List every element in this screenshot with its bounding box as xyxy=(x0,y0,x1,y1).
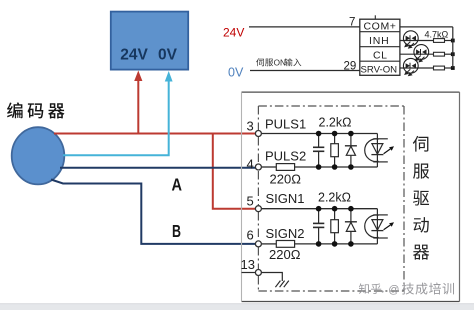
svg-text:@: @ xyxy=(388,284,399,296)
wire: CL row xyxy=(400,53,453,55)
value label 4.7kΩ xyxy=(425,30,449,40)
encoder (blue ellipse) xyxy=(12,127,65,184)
junction xyxy=(332,131,338,170)
svg-text:2.2kΩ: 2.2kΩ xyxy=(318,191,351,205)
signal label PULS1 xyxy=(265,117,306,132)
svg-text:SRV-ON: SRV-ON xyxy=(361,65,398,76)
power supply box (24V/0V source) xyxy=(111,12,188,70)
svg-text:SIGN1: SIGN1 xyxy=(266,191,305,206)
pin label SRV-ON xyxy=(361,65,398,76)
pin number 7 xyxy=(349,17,355,29)
wire: cyan 0V net from encoder up to supply box with arrowhead xyxy=(63,71,173,155)
wire: SRV-ON row xyxy=(400,67,453,69)
label B xyxy=(172,221,181,241)
wire: red branch up to supply box with arrowhead xyxy=(134,71,142,134)
resistor 2.2kΩ across PULS1/PULS2 xyxy=(331,134,339,168)
label 伺服驱动器 (servo driver), vertical xyxy=(413,136,429,260)
svg-text:4: 4 xyxy=(247,157,254,172)
wire: pin 29 lead to SRV-ON xyxy=(250,70,360,72)
resistor 4.7k (INH row) xyxy=(434,39,445,43)
terminal pin 6 (SIGN2) xyxy=(255,241,261,247)
svg-text:24V: 24V xyxy=(223,26,244,40)
capacitor across PULS1/PULS2 xyxy=(313,134,324,168)
svg-text:7: 7 xyxy=(349,17,355,29)
resistor 4.7k (SRV-ON row) xyxy=(434,66,445,70)
wire: navy signal A from encoder to pin 4 xyxy=(60,167,256,169)
label A xyxy=(172,174,183,194)
pin number 6 xyxy=(247,228,254,243)
svg-text:5: 5 xyxy=(247,194,254,209)
svg-text:220Ω: 220Ω xyxy=(270,172,302,187)
wire: navy signal B from encoder to pin 6 xyxy=(51,180,256,244)
value label 2.2kΩ (PULS) xyxy=(319,116,352,130)
terminal pin 13 with lead xyxy=(242,270,262,276)
pin number 5 xyxy=(247,194,254,209)
junction xyxy=(316,206,322,247)
pin label INH xyxy=(369,35,389,47)
value label 2.2kΩ (SIGN) xyxy=(318,191,351,205)
pin number 4 xyxy=(247,157,254,172)
wire: red 24V net horizontal from encoder to pin 3 xyxy=(54,133,256,135)
label 24V (red, external supply rail) xyxy=(223,26,244,40)
wire: red branch down to pin 5 (SIGN1) xyxy=(213,134,256,209)
svg-text:6: 6 xyxy=(247,228,254,243)
value label 220Ω (PULS2) xyxy=(270,172,302,187)
svg-text:CL: CL xyxy=(373,49,387,61)
svg-text:ON: ON xyxy=(274,59,286,68)
terminal pin 4 (PULS2) xyxy=(255,164,261,170)
optocoupler LED (PULS1/PULS2 input) xyxy=(365,134,394,168)
svg-text:0V: 0V xyxy=(228,66,244,80)
wire: right bus vertical (COM+ common) xyxy=(452,27,454,68)
resistor 4.7k (CL row) xyxy=(434,52,445,56)
pin number 13 xyxy=(241,257,255,272)
junction on bus (CL row) xyxy=(451,52,455,56)
diode across SIGN1/SIGN2 (cathode up) xyxy=(345,209,357,244)
signal label SIGN1 xyxy=(266,191,305,206)
pin label CL xyxy=(373,49,387,61)
svg-text:A: A xyxy=(172,174,183,194)
svg-text:0V: 0V xyxy=(158,47,178,64)
label encoder (编码器) xyxy=(7,102,64,118)
pin label COM+ xyxy=(364,21,397,33)
chassis ground symbol xyxy=(275,281,288,288)
svg-text:2.2kΩ: 2.2kΩ xyxy=(319,116,352,130)
svg-text:24V: 24V xyxy=(120,47,148,64)
capacitor across SIGN1/SIGN2 xyxy=(313,209,324,244)
wire: SIGN2 from pin 6 with series resistor xyxy=(261,243,377,245)
svg-text:29: 29 xyxy=(344,61,357,73)
dash-dot interface boundary of servo driver xyxy=(258,106,404,291)
optocoupler LED (CL input) xyxy=(414,45,429,63)
junction xyxy=(348,131,354,170)
junction xyxy=(348,206,354,247)
junction on bus (INH row) xyxy=(451,39,455,43)
wire: pin 7 lead to COM+ xyxy=(249,26,360,28)
resistor 220Ω in PULS2 line xyxy=(276,164,294,171)
junction on bus (SRV-ON row) xyxy=(451,66,455,70)
wire: pin 13 to chassis ground xyxy=(261,273,282,282)
diode across PULS1/PULS2 (cathode up) xyxy=(345,134,357,168)
optocoupler LED (SRV-ON input) xyxy=(403,58,418,76)
wire: PULS1 from pin 3 xyxy=(261,133,377,135)
label 24V inside supply box xyxy=(120,47,148,64)
svg-text:INH: INH xyxy=(369,35,389,47)
value label 220Ω (SIGN2) xyxy=(269,247,301,262)
svg-text:COM+: COM+ xyxy=(364,21,397,33)
optocoupler LED (SIGN1/SIGN2 input) xyxy=(365,209,394,244)
svg-text:PULS1: PULS1 xyxy=(265,117,306,132)
svg-text:4.7kΩ: 4.7kΩ xyxy=(425,30,449,40)
signal label SIGN2 xyxy=(266,226,305,241)
optocoupler LED (INH input) xyxy=(403,31,418,49)
bottom gray strip xyxy=(0,303,474,310)
svg-text:B: B xyxy=(172,221,181,241)
svg-text:SIGN2: SIGN2 xyxy=(266,226,305,241)
terminal pin 3 (PULS1) xyxy=(255,131,261,137)
label 伺服ON输入 xyxy=(256,58,301,67)
svg-text:3: 3 xyxy=(247,119,254,134)
signal label PULS2 xyxy=(265,149,306,164)
resistor 220Ω in SIGN2 line xyxy=(276,241,294,248)
wire: INH row xyxy=(400,40,453,42)
servo driver outer enclosure box xyxy=(242,92,460,301)
svg-text:220Ω: 220Ω xyxy=(269,247,301,262)
svg-text:PULS2: PULS2 xyxy=(265,149,306,164)
pin number 3 xyxy=(247,119,254,134)
junction xyxy=(316,131,322,170)
terminal pin 5 (SIGN1) xyxy=(255,206,261,212)
pin number 29 xyxy=(344,61,357,73)
svg-text:13: 13 xyxy=(241,257,255,272)
wire: COM+ to right bus xyxy=(400,26,453,28)
label 0V inside supply box xyxy=(158,47,178,64)
wire: PULS2 from pin 4 with series resistor xyxy=(261,166,377,168)
resistor 2.2kΩ across SIGN1/SIGN2 xyxy=(331,209,339,244)
label 0V (blue, external rail) xyxy=(228,66,244,80)
watermark 知乎 @技成培训 xyxy=(359,283,454,296)
wire: SIGN1 from pin 5 xyxy=(261,208,377,210)
connector block U2 (COM+/INH/CL/SRV-ON) xyxy=(360,15,400,75)
junction xyxy=(332,206,338,247)
